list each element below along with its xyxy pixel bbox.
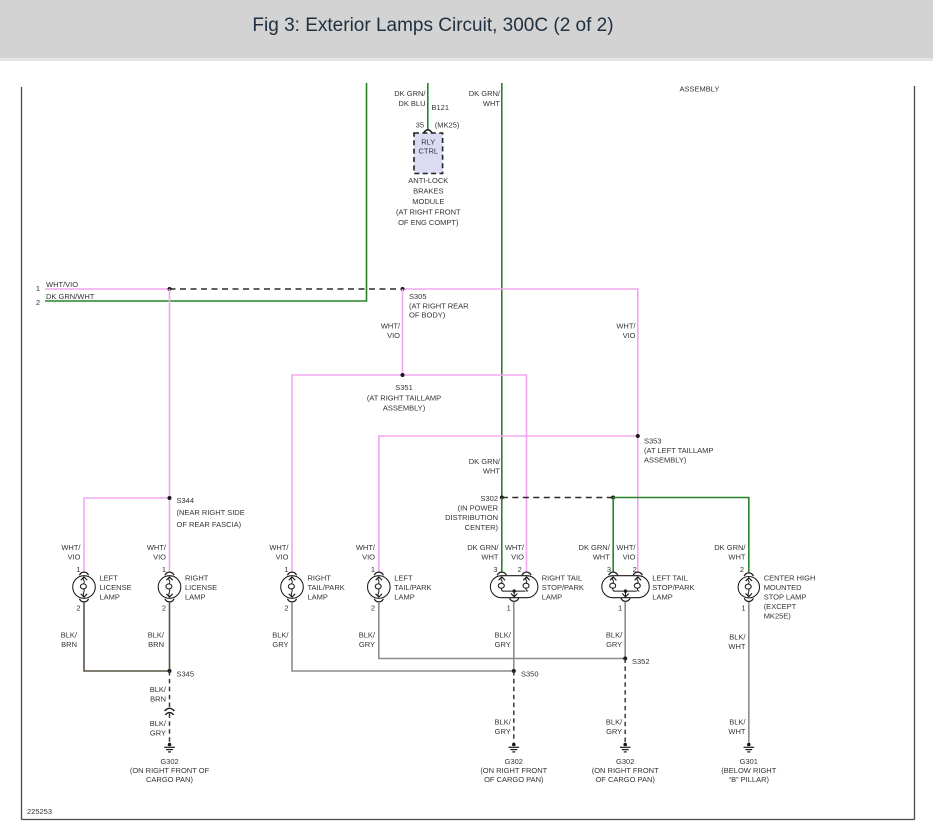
dashed wire BLK/GRY to G302 <box>169 714 171 743</box>
splice S305 <box>401 287 405 291</box>
svg-text:2: 2 <box>284 604 288 613</box>
svg-text:3: 3 <box>493 565 497 574</box>
svg-text:G302: G302 <box>505 757 523 766</box>
svg-text:DK BLU: DK BLU <box>398 99 425 108</box>
svg-text:DK GRN/: DK GRN/ <box>714 543 746 552</box>
svg-text:LEFT TAIL: LEFT TAIL <box>652 574 687 583</box>
svg-text:OF REAR FASCIA): OF REAR FASCIA) <box>177 520 242 529</box>
lamp CENTER HIGH MOUNTED STOP LAMP <box>738 573 759 602</box>
svg-text:(ON RIGHT FRONT: (ON RIGHT FRONT <box>592 766 659 775</box>
svg-text:1: 1 <box>741 604 745 613</box>
svg-text:OF CARGO PAN): OF CARGO PAN) <box>595 775 655 784</box>
wire WHT/VIO S305 down to S351 <box>402 289 404 375</box>
svg-text:WHT/: WHT/ <box>61 543 81 552</box>
svg-text:GRY: GRY <box>359 640 375 649</box>
SVGBODY <box>21 87 23 820</box>
wire BLK/GRY left tail stop/park to S352 <box>624 602 626 659</box>
svg-text:BLK/: BLK/ <box>150 719 167 728</box>
svg-text:(ON RIGHT FRONT OF: (ON RIGHT FRONT OF <box>130 766 210 775</box>
svg-text:LEFT: LEFT <box>100 574 119 583</box>
wire WHT/VIO S353 bus <box>379 436 638 572</box>
svg-text:VIO: VIO <box>153 553 166 562</box>
label G302 cargo pan <box>130 757 210 784</box>
svg-text:GRY: GRY <box>606 640 622 649</box>
lamp LEFT TAIL/PARK LAMP <box>368 572 391 602</box>
svg-text:1: 1 <box>371 565 375 574</box>
dashed wire BLK/BRN below S345 <box>169 671 171 707</box>
svg-text:S353: S353 <box>644 437 662 446</box>
svg-text:BLK/: BLK/ <box>150 685 167 694</box>
svg-text:2: 2 <box>518 565 522 574</box>
svg-text:CTRL: CTRL <box>419 147 439 156</box>
svg-text:VIO: VIO <box>623 553 636 562</box>
svg-text:WHT/: WHT/ <box>616 543 636 552</box>
svg-text:(AT RIGHT FRONT: (AT RIGHT FRONT <box>396 208 461 217</box>
svg-text:WHT/: WHT/ <box>505 543 525 552</box>
svg-text:BLK/: BLK/ <box>606 631 623 640</box>
svg-text:2: 2 <box>371 604 375 613</box>
svg-text:(BELOW RIGHT: (BELOW RIGHT <box>721 766 776 775</box>
lamp RIGHT LICENSE LAMP <box>158 572 181 602</box>
svg-text:BLK/: BLK/ <box>61 631 78 640</box>
svg-text:DK GRN/WHT: DK GRN/WHT <box>46 292 95 301</box>
dashed wire BLK/GRY S352 to G302 <box>624 659 626 743</box>
svg-text:OF BODY): OF BODY) <box>409 311 446 320</box>
svg-text:LEFT: LEFT <box>394 574 413 583</box>
splice S302 left dot <box>500 496 504 500</box>
svg-text:WHT/: WHT/ <box>269 543 289 552</box>
svg-text:S302: S302 <box>480 494 498 503</box>
svg-text:LAMP: LAMP <box>394 593 414 602</box>
svg-text:WHT: WHT <box>483 467 500 476</box>
svg-text:WHT/: WHT/ <box>381 321 401 330</box>
svg-text:DISTRIBUTION: DISTRIBUTION <box>445 513 498 522</box>
svg-text:MODULE: MODULE <box>412 197 444 206</box>
label LEFT LICENSE LAMP <box>100 574 132 602</box>
svg-text:1: 1 <box>507 604 511 613</box>
wire WHT/VIO S305 to S353 corner <box>403 289 638 436</box>
wire WHT/VIO S344 bus to license lamps <box>84 498 170 572</box>
svg-text:LICENSE: LICENSE <box>185 583 217 592</box>
svg-text:S344: S344 <box>177 496 195 505</box>
wire B121 DK GRN/DK BLU to ABS module <box>427 83 429 130</box>
svg-text:S350: S350 <box>521 670 539 679</box>
wire BLK/BRN left license to S345 <box>84 602 170 671</box>
label RIGHT LICENSE LAMP <box>185 574 217 602</box>
svg-text:1: 1 <box>76 565 80 574</box>
svg-text:CENTER HIGH: CENTER HIGH <box>764 574 816 583</box>
clipped label ASSEMBLY at top <box>655 76 765 93</box>
svg-text:LICENSE: LICENSE <box>100 583 132 592</box>
wire BLK/GRY right tail/park to S350 <box>292 602 514 671</box>
svg-text:(AT LEFT TAILLAMP: (AT LEFT TAILLAMP <box>644 446 713 455</box>
label ANTI-LOCK BRAKES MODULE <box>396 176 461 227</box>
svg-text:WHT: WHT <box>728 553 745 562</box>
label G302 third <box>592 757 659 784</box>
wire BLK/BRN right license to S345 <box>169 602 171 671</box>
svg-text:BRN: BRN <box>61 640 77 649</box>
wire BLK/GRY left tail/park to S352 <box>379 602 625 659</box>
svg-text:WHT: WHT <box>728 642 745 651</box>
splice S345 <box>168 669 172 673</box>
svg-text:MK25E): MK25E) <box>764 612 792 621</box>
svg-text:GRY: GRY <box>495 727 511 736</box>
svg-text:OF CARGO PAN): OF CARGO PAN) <box>484 775 544 784</box>
svg-text:1: 1 <box>284 565 288 574</box>
label RIGHT TAIL STOP/PARK LAMP <box>542 574 584 602</box>
svg-text:GRY: GRY <box>272 640 288 649</box>
wire DK GRN/WHT from connector pin 2 up to top <box>45 83 367 301</box>
svg-text:2: 2 <box>76 604 80 613</box>
svg-text:BRAKES: BRAKES <box>413 187 443 196</box>
splice S351 <box>401 373 405 377</box>
svg-text:B121: B121 <box>432 103 450 112</box>
svg-text:35: 35 <box>416 120 424 129</box>
svg-text:CARGO PAN): CARGO PAN) <box>146 775 193 784</box>
svg-text:(NEAR RIGHT SIDE: (NEAR RIGHT SIDE <box>177 508 245 517</box>
svg-text:LAMP: LAMP <box>652 593 672 602</box>
wire WHT/VIO S344 down to right license lamp <box>169 498 171 572</box>
svg-text:WHT: WHT <box>481 553 498 562</box>
svg-text:1: 1 <box>618 604 622 613</box>
ABS module box RLY CTRL <box>414 133 443 174</box>
svg-text:(IN POWER: (IN POWER <box>458 504 499 513</box>
svg-text:VIO: VIO <box>276 553 289 562</box>
svg-text:G302: G302 <box>160 757 178 766</box>
svg-text:RIGHT: RIGHT <box>308 574 332 583</box>
svg-text:BLK/: BLK/ <box>495 631 512 640</box>
label S344 <box>177 496 245 529</box>
svg-text:BLK/: BLK/ <box>359 631 376 640</box>
ground G302 third <box>620 743 631 752</box>
svg-text:STOP/PARK: STOP/PARK <box>652 583 694 592</box>
svg-text:BLK/: BLK/ <box>729 633 746 642</box>
wire WHT/VIO S351 bus <box>292 375 527 572</box>
svg-text:GRY: GRY <box>495 640 511 649</box>
svg-text:VIO: VIO <box>511 553 524 562</box>
svg-text:DK GRN/: DK GRN/ <box>469 89 501 98</box>
wire WHT/VIO from connector pin 1 <box>45 288 170 290</box>
svg-text:“B” PILLAR): “B” PILLAR) <box>729 775 770 784</box>
splice S353 <box>636 434 640 438</box>
wire BLK/WHT center stop lamp to G301 <box>748 602 750 743</box>
wire DK GRN/WHT S302 to right tail stop/park pin 3 <box>501 498 503 573</box>
label LEFT TAIL/PARK LAMP <box>394 574 431 602</box>
svg-text:GRY: GRY <box>150 729 166 738</box>
inline connector on ground wire <box>165 708 175 715</box>
label G301 <box>721 757 776 784</box>
wire DK GRN/WHT to S302 <box>501 83 503 498</box>
ground G301 below right B pillar <box>744 743 755 752</box>
svg-text:2: 2 <box>740 565 744 574</box>
wire DK GRN/WHT S302 to left tail stop/park pin 3 <box>612 498 614 573</box>
svg-text:ASSEMBLY): ASSEMBLY) <box>644 456 687 465</box>
dashed wire S302 <box>502 497 613 499</box>
svg-text:(AT RIGHT TAILLAMP: (AT RIGHT TAILLAMP <box>367 393 441 402</box>
svg-text:S352: S352 <box>632 657 650 666</box>
ground G302 second <box>509 743 520 752</box>
wire WHT/VIO S353 down to lamp <box>637 436 639 572</box>
label RIGHT TAIL/PARK LAMP <box>308 574 345 602</box>
svg-text:BLK/: BLK/ <box>495 718 512 727</box>
svg-text:WHT/VIO: WHT/VIO <box>46 280 78 289</box>
label S305 <box>409 292 469 320</box>
svg-text:STOP/PARK: STOP/PARK <box>542 583 584 592</box>
svg-text:ASSEMBLY): ASSEMBLY) <box>383 404 426 413</box>
svg-text:WHT/: WHT/ <box>356 543 376 552</box>
svg-text:VIO: VIO <box>623 331 636 340</box>
svg-text:LAMP: LAMP <box>308 593 328 602</box>
wire WHT/VIO down to S344 <box>169 289 171 498</box>
svg-text:WHT/: WHT/ <box>147 543 167 552</box>
svg-text:DK GRN/: DK GRN/ <box>579 543 611 552</box>
svg-text:225253: 225253 <box>27 807 52 816</box>
svg-text:S351: S351 <box>395 383 413 392</box>
svg-text:TAIL/PARK: TAIL/PARK <box>308 583 345 592</box>
svg-text:CENTER): CENTER) <box>465 523 499 532</box>
label S353 <box>644 437 713 465</box>
svg-text:BLK/: BLK/ <box>272 631 289 640</box>
svg-text:STOP LAMP: STOP LAMP <box>764 593 807 602</box>
svg-text:ANTI-LOCK: ANTI-LOCK <box>408 176 448 185</box>
svg-text:WHT/: WHT/ <box>616 321 636 330</box>
label LEFT TAIL STOP/PARK LAMP <box>652 574 694 602</box>
svg-text:MOUNTED: MOUNTED <box>764 583 802 592</box>
lamp LEFT TAIL STOP/PARK LAMP <box>602 572 649 601</box>
svg-text:VIO: VIO <box>387 331 400 340</box>
ground G302 right front of cargo pan <box>164 743 175 752</box>
svg-text:BLK/: BLK/ <box>606 718 623 727</box>
svg-text:RIGHT TAIL: RIGHT TAIL <box>542 574 582 583</box>
svg-text:2: 2 <box>162 604 166 613</box>
lamp LEFT LICENSE LAMP <box>73 572 96 602</box>
pin 35 connector arc on module <box>423 130 432 134</box>
svg-text:LAMP: LAMP <box>185 593 205 602</box>
svg-text:DK GRN/: DK GRN/ <box>469 457 501 466</box>
svg-text:DK GRN/: DK GRN/ <box>467 543 499 552</box>
svg-text:BLK/: BLK/ <box>729 718 746 727</box>
svg-text:(AT RIGHT REAR: (AT RIGHT REAR <box>409 301 469 310</box>
svg-text:DK GRN/: DK GRN/ <box>394 89 426 98</box>
svg-text:VIO: VIO <box>68 553 81 562</box>
svg-text:G301: G301 <box>740 757 758 766</box>
wire BLK/GRY right tail stop/park to S350 <box>513 602 515 671</box>
svg-text:BLK/: BLK/ <box>148 631 165 640</box>
svg-text:GRY: GRY <box>606 727 622 736</box>
label G302 second <box>480 757 547 784</box>
wire DK GRN/WHT S302 to center high mounted stop lamp <box>613 498 749 573</box>
svg-text:(MK25): (MK25) <box>435 120 460 129</box>
svg-text:RLY: RLY <box>421 137 435 146</box>
splice S302 right dot <box>611 496 615 500</box>
splice S352 <box>623 657 627 661</box>
lamp RIGHT TAIL/PARK LAMP <box>281 572 304 602</box>
svg-text:BRN: BRN <box>148 640 164 649</box>
svg-text:(EXCEPT: (EXCEPT <box>764 602 797 611</box>
label S351 <box>367 383 441 413</box>
svg-text:2: 2 <box>36 298 40 307</box>
splice S350 <box>512 669 516 673</box>
svg-text:OF ENG COMPT): OF ENG COMPT) <box>398 218 459 227</box>
svg-text:1: 1 <box>36 284 40 293</box>
svg-text:WHT: WHT <box>728 727 745 736</box>
svg-text:(ON RIGHT FRONT: (ON RIGHT FRONT <box>480 766 547 775</box>
svg-text:S345: S345 <box>177 670 195 679</box>
dashed wire to S305 <box>170 288 403 290</box>
svg-text:WHT: WHT <box>593 553 610 562</box>
svg-text:LAMP: LAMP <box>542 593 562 602</box>
label CENTER HIGH MOUNTED STOP LAMP <box>764 574 816 621</box>
dashed wire BLK/GRY S350 to G302 <box>513 671 515 743</box>
svg-text:S305: S305 <box>409 292 427 301</box>
svg-text:WHT: WHT <box>483 99 500 108</box>
lamp RIGHT TAIL STOP/PARK LAMP <box>490 572 538 601</box>
svg-text:LAMP: LAMP <box>100 593 120 602</box>
junction dot WHT/VIO <box>168 287 172 291</box>
splice S344 <box>168 496 172 500</box>
label S302 <box>445 494 498 532</box>
svg-text:VIO: VIO <box>362 553 375 562</box>
svg-text:TAIL/PARK: TAIL/PARK <box>394 583 431 592</box>
svg-text:BRN: BRN <box>150 694 166 703</box>
svg-text:1: 1 <box>162 565 166 574</box>
title bar <box>0 0 933 61</box>
svg-text:RIGHT: RIGHT <box>185 574 209 583</box>
svg-text:G302: G302 <box>616 757 634 766</box>
